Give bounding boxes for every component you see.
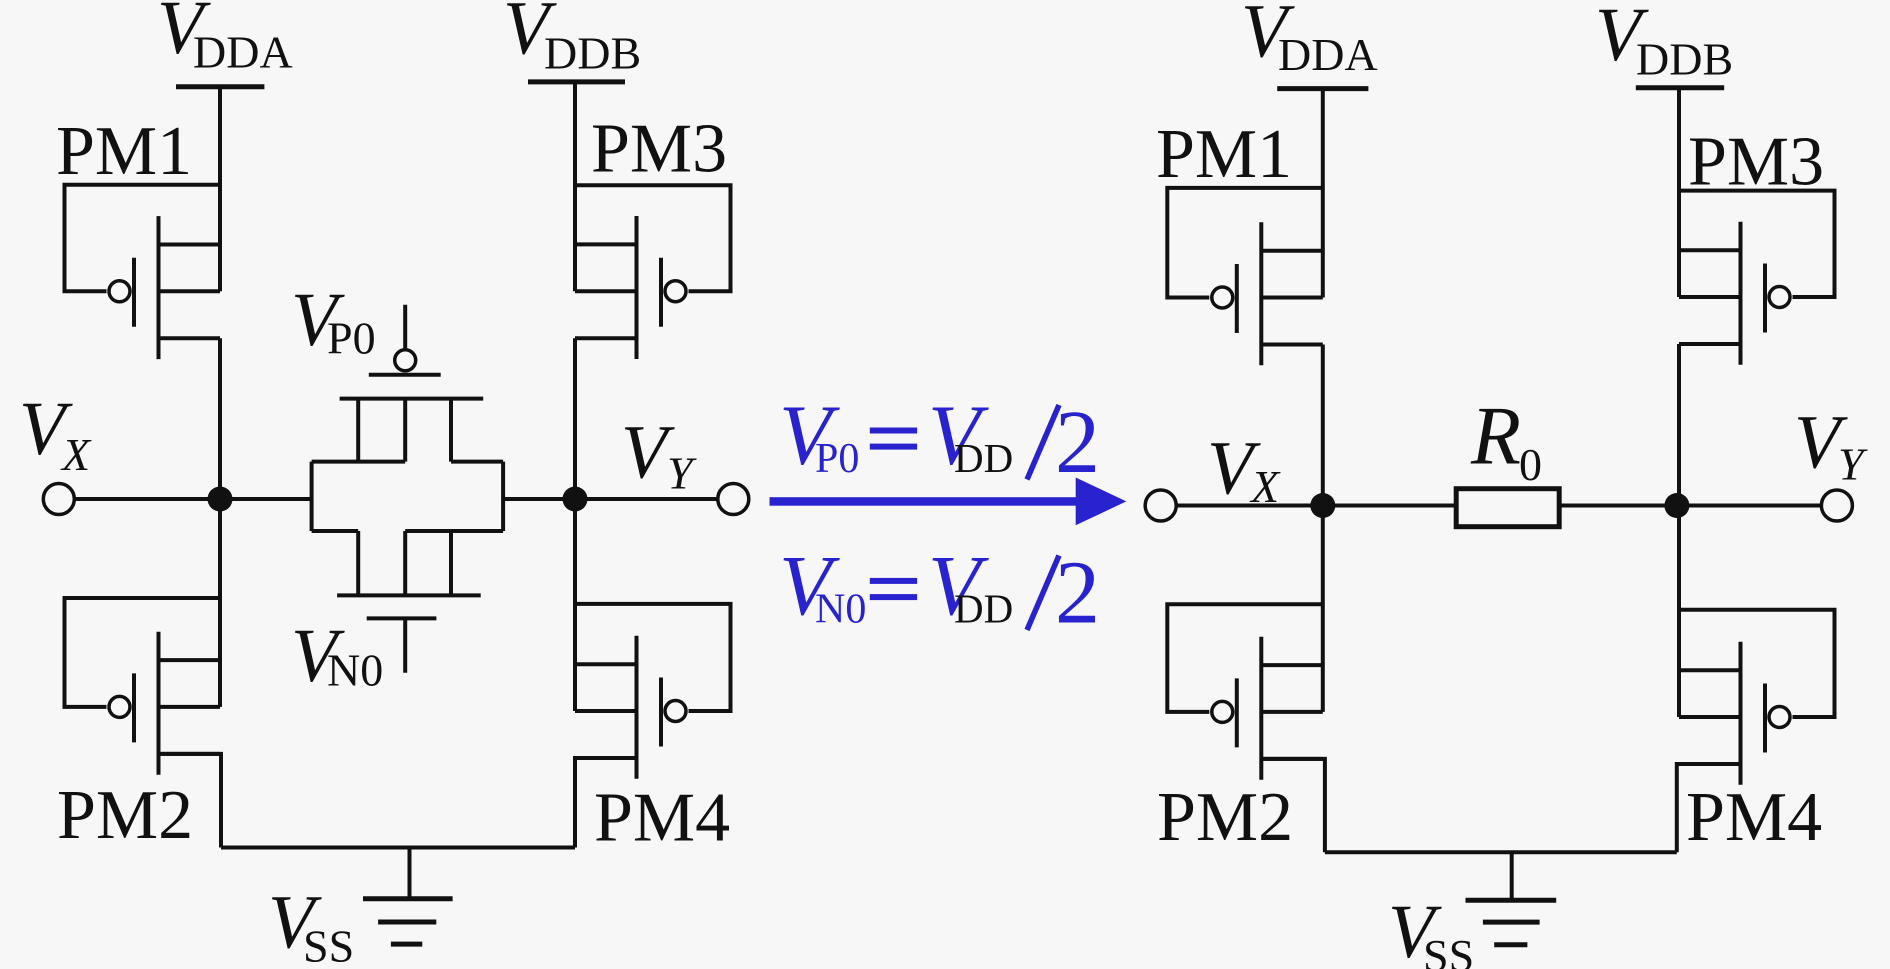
label PM4 (right) [1686, 779, 1822, 856]
wire: VDDA rail to PM1 (left) [218, 87, 222, 292]
svg-text:2: 2 [1055, 544, 1100, 643]
svg-text:PM2: PM2 [57, 777, 193, 854]
svg-text:DD: DD [954, 586, 1013, 632]
wire: PM4 drain to bottom rail (right) [1677, 764, 1741, 852]
label VDDB (right) [1595, 0, 1733, 85]
wire: node VY down to PM4 (right) [1677, 506, 1681, 718]
svg-text:DDA: DDA [193, 27, 293, 78]
label VY (left) [621, 411, 697, 499]
wire: bottom VSS rail (right circuit) [1325, 850, 1677, 854]
wire: PM2 drain to bottom rail (left) [162, 754, 222, 848]
transistor PM1 (right circuit) [1167, 188, 1323, 365]
svg-text:X: X [60, 429, 92, 480]
slash and 2 (eq 2) [1027, 556, 1059, 631]
label PM1 (right) [1156, 116, 1292, 193]
svg-text:Y: Y [667, 448, 697, 499]
label VP0 [291, 278, 376, 364]
svg-text:PM3: PM3 [1688, 124, 1824, 201]
svg-text:N0: N0 [815, 587, 866, 633]
transmission gate (VP0/VN0 switch) [312, 305, 504, 673]
node: VY junction dot (right) [1664, 493, 1689, 518]
equals sign (eq 2) [870, 578, 917, 600]
node: VY junction dot (left) [563, 487, 588, 512]
wire: node VX down to PM2 (left) [218, 499, 222, 707]
wire: VX to transmission gate (left) [75, 497, 312, 501]
svg-text:DDB: DDB [1636, 34, 1733, 85]
power supply VDDB (left circuit) [528, 79, 625, 84]
label PM4 (left) [594, 780, 730, 857]
svg-text:PM4: PM4 [1686, 779, 1822, 856]
resistor R0 [1456, 489, 1559, 527]
ground symbol (right circuit) [1466, 852, 1557, 945]
label VSS (right) [1388, 890, 1474, 969]
power supply VDDB (right circuit) [1636, 85, 1724, 90]
svg-text:DDB: DDB [544, 28, 641, 79]
transistor PM1 (left circuit) [65, 185, 221, 359]
transistor PM4 (left circuit) [575, 604, 731, 779]
svg-text:DD: DD [954, 435, 1013, 481]
transistor PM2 (left circuit) [65, 598, 221, 775]
wire: VDDB rail to PM3 (left) [573, 82, 577, 291]
svg-text:PM1: PM1 [1156, 116, 1292, 193]
label equation VP0 subscript DD [954, 435, 1013, 481]
label PM3 (right) [1688, 124, 1824, 201]
label PM2 (right) [1157, 779, 1293, 856]
wire: VDDA rail to PM1 (right) [1321, 89, 1325, 298]
transistor PM2 (right circuit) [1167, 604, 1323, 779]
power supply VDDA (left circuit) [176, 84, 264, 89]
wire: VDDB rail to PM3 (right) [1677, 88, 1681, 297]
label VDDB (left) [503, 0, 641, 79]
wire: resistor to VY (right) [1559, 504, 1821, 508]
svg-text:PM2: PM2 [1157, 779, 1293, 856]
svg-text:2: 2 [1055, 393, 1100, 492]
terminal VY (left, open circle) [718, 484, 749, 515]
svg-text:PM3: PM3 [591, 111, 727, 188]
svg-text:R: R [1470, 390, 1521, 483]
transistor PM3 (right circuit) [1679, 191, 1835, 365]
blue arrow (implies equivalence) [770, 478, 1127, 526]
svg-text:P0: P0 [327, 313, 376, 364]
svg-text:DDA: DDA [1278, 29, 1378, 80]
wire: node VY down to PM4 (left) [573, 499, 577, 711]
wire: VX to resistor (right) [1177, 504, 1457, 508]
label equation VP0 two [1055, 393, 1100, 492]
transistor PM3 (left circuit) [575, 185, 731, 359]
svg-text:SS: SS [1423, 930, 1474, 969]
wire: transmission gate to VY terminal (left) [503, 497, 718, 501]
label equation VP0=VDD/2 [779, 387, 989, 483]
svg-text:P0: P0 [815, 436, 859, 482]
wire: PM4 drain to bottom rail (left) [575, 758, 637, 848]
svg-text:N0: N0 [327, 645, 383, 696]
label VX (left) [19, 387, 92, 480]
terminal VX (right, open circle) [1145, 490, 1176, 521]
wire: node VX down to PM2 (right) [1321, 506, 1325, 712]
terminal VY (right, open circle) [1821, 490, 1852, 521]
svg-text:SS: SS [303, 921, 354, 969]
label VDDA (left) [157, 0, 293, 78]
label PM3 (left) [591, 111, 727, 188]
wire: PM2 drain to bottom rail (right) [1262, 759, 1325, 852]
svg-text:PM1: PM1 [56, 113, 192, 190]
label VX (right) [1207, 427, 1281, 513]
terminal VX (left, open circle) [43, 484, 74, 515]
power supply VDDA (right circuit) [1277, 86, 1368, 91]
svg-text:PM4: PM4 [594, 780, 730, 857]
wire: PM3 drain to node VY (right) [1677, 344, 1681, 506]
svg-text:0: 0 [1519, 439, 1542, 490]
label VY (right) [1794, 401, 1868, 490]
label VSS (left) [268, 881, 354, 969]
node: VX junction dot (left) [208, 487, 233, 512]
transistor PM4 (right circuit) [1679, 610, 1835, 785]
wire: PM1 drain to node VX (right) [1321, 345, 1325, 506]
wire: PM1 drain to node VX (left) [218, 338, 222, 499]
label PM2 (left) [57, 777, 193, 854]
label equation VN0=VDD/2 [779, 537, 989, 633]
equals sign (eq 1) [870, 428, 917, 450]
svg-text:Y: Y [1838, 439, 1868, 490]
label PM1 (left) [56, 113, 192, 190]
slash and 2 (eq 1) [1027, 405, 1059, 480]
label VN0 [291, 614, 383, 698]
label equation VN0 subscript DD [954, 586, 1013, 632]
label equation VN0 two [1055, 544, 1100, 643]
wire: PM3 drain to node VY (left) [573, 338, 577, 499]
ground symbol (left circuit) [363, 848, 453, 945]
label VDDA (right) [1241, 0, 1378, 80]
wire: bottom VSS rail (left circuit) [221, 846, 575, 850]
node: VX junction dot (right) [1310, 493, 1335, 518]
